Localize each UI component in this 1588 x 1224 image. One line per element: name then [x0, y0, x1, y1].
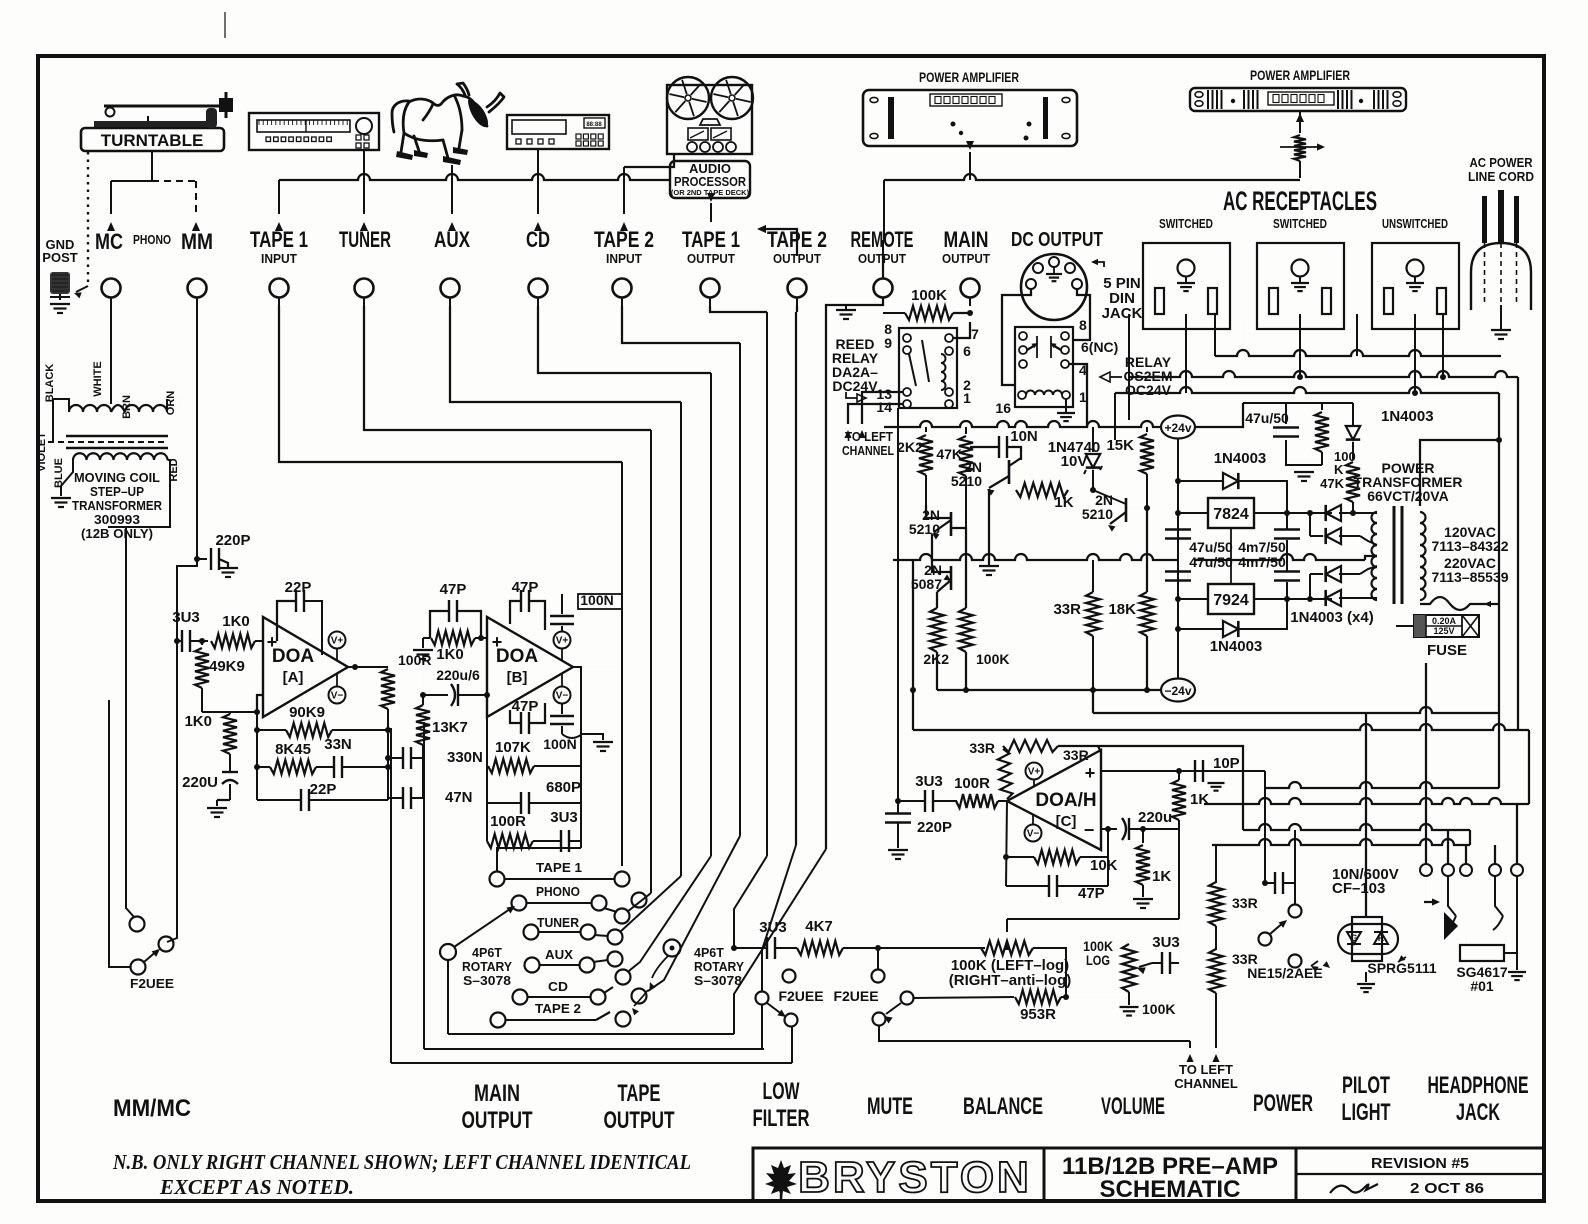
- audio processor box: [670, 161, 750, 198]
- registration tick top: [224, 12, 226, 38]
- main output wires: [387, 717, 389, 800]
- rail verticals: [1177, 438, 1179, 679]
- svg-text:V+: V+: [556, 636, 569, 647]
- svg-text:220P: 220P: [215, 532, 250, 549]
- wire mm to switch pole: [167, 559, 197, 942]
- svg-text:S–3078: S–3078: [694, 974, 742, 988]
- svg-text:SWITCHED: SWITCHED: [1159, 216, 1213, 231]
- svg-text:4m7/50: 4m7/50: [1238, 539, 1286, 555]
- svg-text:47K: 47K: [936, 446, 962, 462]
- doa/h input rail: [897, 408, 899, 801]
- svg-text:STEP–UP: STEP–UP: [90, 484, 144, 499]
- 5 pin din jack label: [1093, 262, 1104, 267]
- svg-text:(12B ONLY): (12B ONLY): [81, 526, 153, 541]
- bryston mini logo on amp 1: [930, 94, 1002, 106]
- svg-text:47P: 47P: [512, 698, 539, 715]
- wire doa b to tape1 sw: [497, 848, 581, 871]
- svg-text:V−: V−: [1027, 829, 1040, 840]
- switch row tuner: [524, 925, 539, 940]
- wire remote spare drop: [795, 312, 797, 845]
- right rail 1: [1498, 393, 1500, 788]
- wires to left channel: [862, 392, 903, 424]
- svg-text:TRANSFORMER: TRANSFORMER: [72, 498, 163, 513]
- wire tape2out drop: [796, 306, 798, 312]
- switch row tape1: [490, 872, 505, 887]
- pilot light opto: [1352, 917, 1382, 961]
- svg-text:220u: 220u: [1138, 809, 1172, 826]
- wire balance right: [1033, 948, 1066, 997]
- svg-text:1: 1: [963, 390, 971, 406]
- ac receptacle 3: [1372, 243, 1459, 329]
- transformer primary winding: [1420, 512, 1426, 523]
- turntable tonearm: [104, 105, 222, 108]
- audio processor to reel arrow: [710, 222, 712, 256]
- svg-text:LOG: LOG: [1086, 952, 1110, 968]
- switch row tape2: [491, 1013, 506, 1028]
- svg-text:1K0: 1K0: [184, 713, 212, 730]
- svg-text:1: 1: [1079, 389, 1087, 405]
- svg-text:47u/50: 47u/50: [1245, 410, 1289, 426]
- wire doa a out to 220u: [388, 667, 423, 695]
- receptacle neutral bus: [1115, 387, 1499, 393]
- svg-text:1K: 1K: [1190, 791, 1209, 808]
- svg-text:MM: MM: [181, 229, 213, 254]
- power switch: [1289, 905, 1302, 918]
- long verticals: [621, 462, 623, 866]
- phone plug symbol: [1444, 912, 1458, 940]
- svg-text:15K: 15K: [1106, 437, 1134, 454]
- svg-text:66VCT/20VA: 66VCT/20VA: [1367, 488, 1448, 504]
- svg-text:88:88: 88:88: [586, 122, 602, 128]
- wire tape1out drop: [710, 306, 767, 312]
- regulator 7824: [1208, 498, 1254, 528]
- svg-text:1N4003: 1N4003: [1210, 638, 1263, 655]
- svg-text:10N: 10N: [1010, 428, 1038, 445]
- wire low filter vertical: [761, 1005, 763, 1049]
- svg-text:TUNER: TUNER: [537, 916, 579, 930]
- svg-text:47N: 47N: [445, 789, 473, 806]
- svg-text:953R: 953R: [1020, 1006, 1056, 1023]
- svg-text:4P6T: 4P6T: [694, 946, 724, 960]
- cap 4m7 wires: [1286, 513, 1288, 529]
- cap 4m7 upper: [1274, 528, 1300, 530]
- svg-text:(RIGHT–anti–log): (RIGHT–anti–log): [949, 972, 1072, 989]
- svg-text:3U3: 3U3: [550, 809, 578, 826]
- svg-text:POST: POST: [42, 250, 77, 265]
- svg-text:[A]: [A]: [283, 669, 304, 686]
- svg-text:33R: 33R: [969, 740, 995, 756]
- svg-text:5210: 5210: [951, 473, 982, 489]
- ac receptacle 1: [1143, 243, 1230, 329]
- svg-text:G: G: [1350, 933, 1357, 943]
- mc transformer core: [66, 435, 168, 438]
- svg-text:BLACK: BLACK: [44, 364, 56, 403]
- transformer core: [1393, 506, 1396, 604]
- wire tuner drop: [363, 150, 365, 214]
- mc step-up transformer primary: [69, 405, 83, 412]
- +24v supply bus: [884, 421, 1162, 427]
- wire into low filter: [733, 941, 735, 948]
- reed relay coil: [941, 354, 946, 363]
- svg-text:−: −: [1084, 820, 1095, 840]
- svg-text:1N4003 (x4): 1N4003 (x4): [1290, 609, 1373, 626]
- reed relay contacts: [903, 334, 911, 342]
- svg-text:BALANCE: BALANCE: [963, 1093, 1043, 1120]
- svg-text:EXCEPT AS NOTED.: EXCEPT AS NOTED.: [159, 1175, 354, 1199]
- svg-text:FILTER: FILTER: [753, 1105, 810, 1132]
- reed relay DA2A box: [899, 328, 957, 408]
- neon NE15/2AEE: [1289, 955, 1302, 968]
- wire turntable to phono arrows: [151, 151, 153, 181]
- feedback network A: [256, 713, 258, 800]
- op-amp DOA B: [487, 617, 573, 717]
- svg-text:18K: 18K: [1108, 601, 1136, 618]
- svg-text:PHONO: PHONO: [536, 885, 580, 899]
- svg-text:6(NC): 6(NC): [1081, 339, 1118, 355]
- receptacle slot drops: [1128, 314, 1130, 377]
- wire tape1 drop: [279, 306, 622, 462]
- svg-text:4P6T: 4P6T: [472, 946, 502, 960]
- audio processor bus: [279, 174, 670, 180]
- svg-text:1N4003: 1N4003: [1381, 408, 1434, 425]
- svg-text:DC OUTPUT: DC OUTPUT: [1011, 229, 1103, 251]
- svg-text:OC24V: OC24V: [1125, 382, 1172, 398]
- svg-text:7: 7: [971, 326, 979, 342]
- svg-text:DOA: DOA: [496, 646, 539, 667]
- svg-text:V−: V−: [556, 691, 569, 702]
- reel-to-reel tape deck drawing: [667, 85, 752, 154]
- svg-text:47P: 47P: [440, 581, 467, 598]
- mute switch: [872, 970, 885, 983]
- svg-text:MUTE: MUTE: [867, 1093, 913, 1120]
- arrow into jack: [1424, 901, 1436, 903]
- svg-text:FUSE: FUSE: [1427, 642, 1467, 659]
- svg-text:INPUT: INPUT: [606, 251, 642, 266]
- svg-text:1K0: 1K0: [436, 646, 464, 663]
- svg-text:1K0: 1K0: [222, 613, 250, 630]
- svg-text:680P: 680P: [546, 779, 581, 796]
- svg-text:1K: 1K: [1152, 868, 1171, 885]
- svg-text:330N: 330N: [447, 749, 483, 766]
- wire mm drop: [196, 306, 198, 559]
- svg-text:47P: 47P: [512, 579, 539, 596]
- ac receptacle 2: [1257, 243, 1344, 329]
- svg-text:33N: 33N: [324, 736, 352, 753]
- svg-text:MM/MC: MM/MC: [113, 1095, 191, 1122]
- svg-text:2 OCT 86: 2 OCT 86: [1410, 1180, 1484, 1197]
- svg-text:DOA: DOA: [272, 646, 315, 667]
- v-minus bus: [1092, 690, 1094, 713]
- svg-text:7924: 7924: [1213, 592, 1249, 609]
- wire main output arrow to amp 1: [969, 152, 971, 180]
- switch row phono: [512, 896, 527, 911]
- svg-text:OUTPUT: OUTPUT: [687, 251, 735, 266]
- svg-text:JACK: JACK: [1102, 305, 1143, 322]
- svg-text:8: 8: [1079, 317, 1087, 333]
- reed relay ground: [846, 297, 883, 305]
- doa a inverting input wire: [257, 695, 263, 713]
- red lead to switch: [126, 527, 134, 917]
- svg-text:V+: V+: [331, 636, 344, 647]
- svg-text:9: 9: [884, 335, 892, 351]
- svg-text:VOLUME: VOLUME: [1101, 1093, 1165, 1120]
- svg-text:CF–103: CF–103: [1332, 880, 1385, 897]
- 0v mid bus: [893, 554, 1178, 560]
- bridge diodes 1N4003 x4: [1326, 505, 1341, 521]
- wire tuner drop 2: [364, 306, 651, 430]
- svg-text:AUX: AUX: [545, 948, 574, 962]
- svg-text:TAPE 1: TAPE 1: [536, 861, 582, 875]
- svg-text:TO LEFT: TO LEFT: [845, 429, 893, 444]
- svg-text:F2UEE: F2UEE: [778, 988, 823, 1004]
- bull drawing: [392, 83, 504, 158]
- orn lead: [167, 399, 181, 412]
- capacitor 47u/50 lower: [1165, 570, 1191, 572]
- svg-text:BRYSTON: BRYSTON: [798, 1153, 1032, 1202]
- svg-text:3U3: 3U3: [1152, 934, 1180, 951]
- doa b output: [573, 666, 622, 668]
- svg-text:OUTPUT: OUTPUT: [942, 251, 990, 266]
- doa/h minus output: [1101, 828, 1117, 830]
- wire cd drop 2: [538, 306, 711, 373]
- switch row aux: [525, 958, 540, 973]
- 0v to -24 link: [912, 560, 914, 690]
- regulator 7924: [1208, 584, 1254, 614]
- mm/mc pole wire: [109, 700, 131, 967]
- dc output din jack: [1021, 254, 1087, 320]
- fuse: [1414, 615, 1479, 637]
- din wiring: [1002, 289, 1031, 385]
- relay OS2EM ground: [1065, 399, 1067, 413]
- svg-text:33R: 33R: [1063, 747, 1089, 763]
- svg-text:47K: 47K: [1320, 476, 1344, 491]
- svg-text:3U3: 3U3: [915, 773, 943, 790]
- svg-text:CHANNEL: CHANNEL: [842, 443, 894, 458]
- svg-text:7113–84322: 7113–84322: [1431, 538, 1508, 554]
- doa/h plus output: [1101, 770, 1265, 772]
- svg-text:8K45: 8K45: [275, 741, 311, 758]
- svg-text:47P: 47P: [1078, 885, 1105, 902]
- ground mid reg: [988, 560, 990, 566]
- ac plug drawing: [1471, 243, 1531, 310]
- svg-text:CD: CD: [548, 980, 568, 994]
- svg-text:10K: 10K: [1090, 857, 1118, 874]
- +24v bubble: [1161, 416, 1195, 439]
- svg-text:100R: 100R: [954, 775, 990, 792]
- cd player drawing: [507, 115, 609, 149]
- relay pin4 wire: [1069, 364, 1087, 427]
- amp feed bus: [884, 174, 1300, 180]
- low filter switch: [783, 970, 796, 983]
- receptacle hot bus: [1129, 371, 1518, 377]
- svg-text:PILOT: PILOT: [1342, 1072, 1390, 1099]
- svg-text:10V: 10V: [1061, 453, 1088, 470]
- svg-text:4K7: 4K7: [805, 918, 833, 935]
- wire bull drop: [451, 165, 453, 214]
- svg-text:F2UEE: F2UEE: [130, 976, 174, 991]
- svg-text:ROTARY: ROTARY: [694, 960, 745, 974]
- svg-text:AC RECEPTACLES: AC RECEPTACLES: [1223, 186, 1377, 216]
- svg-text:SPRG5111: SPRG5111: [1367, 960, 1436, 976]
- maple leaf logo: [765, 1160, 797, 1199]
- gnd post symbol: [50, 272, 70, 294]
- svg-text:16: 16: [995, 400, 1011, 416]
- svg-text:INPUT: INPUT: [261, 251, 297, 266]
- wire reel-to-reel to tape2 input: [624, 154, 674, 167]
- svg-text:F2UEE: F2UEE: [833, 988, 878, 1004]
- svg-text:LOW: LOW: [763, 1078, 800, 1105]
- left ac drops: [1128, 377, 1130, 420]
- wire arrow into amp 2: [1299, 112, 1301, 133]
- relay OS2EM box: [1015, 327, 1073, 407]
- title block: [753, 1148, 1544, 1201]
- svg-text:V−: V−: [331, 691, 344, 702]
- svg-text:PROCESSOR: PROCESSOR: [674, 174, 747, 189]
- svg-text:10P: 10P: [1213, 755, 1240, 772]
- svg-text:MAIN: MAIN: [944, 227, 989, 252]
- svg-text:49K9: 49K9: [209, 658, 245, 675]
- svg-text:NE15/2AEE: NE15/2AEE: [1247, 965, 1322, 981]
- headphone jack contacts: [1420, 864, 1432, 876]
- svg-text:DOA/H: DOA/H: [1035, 790, 1096, 811]
- svg-text:HEADPHONE: HEADPHONE: [1428, 1072, 1529, 1099]
- tuner drawing: [249, 113, 379, 150]
- wire tape2 output up to reel: [760, 229, 797, 256]
- svg-text:14: 14: [876, 399, 892, 415]
- right rail 2: [1517, 377, 1519, 730]
- svg-text:107K: 107K: [495, 739, 531, 756]
- svg-text:AC POWER: AC POWER: [1470, 155, 1534, 170]
- svg-text:TAPE: TAPE: [618, 1080, 661, 1107]
- red lead label box: [108, 460, 170, 527]
- primary top wire: [1420, 440, 1499, 506]
- svg-text:5210: 5210: [1082, 506, 1113, 522]
- transformer secondary winding: [1372, 512, 1378, 523]
- phono jacks row: [102, 279, 121, 298]
- primary bottom wire: [1420, 597, 1481, 610]
- wire tape2in drop: [622, 306, 740, 343]
- svg-text:MC: MC: [95, 229, 123, 254]
- op-amp DOA A: [263, 617, 348, 717]
- svg-text:LIGHT: LIGHT: [1342, 1099, 1391, 1126]
- top node wire: [1243, 402, 1353, 404]
- svg-text:PHONO: PHONO: [133, 232, 171, 247]
- wire cd drop: [537, 149, 539, 214]
- svg-text:220U: 220U: [182, 774, 218, 791]
- diagonal wires to switches: [627, 893, 651, 912]
- svg-text:100K: 100K: [911, 287, 947, 304]
- svg-text:100R: 100R: [490, 813, 526, 830]
- svg-text:POWER: POWER: [1253, 1090, 1313, 1117]
- svg-text:100K: 100K: [1142, 1001, 1175, 1017]
- svg-text:47u/50: 47u/50: [1189, 539, 1233, 555]
- svg-text:1N4003: 1N4003: [1214, 450, 1267, 467]
- mm/mc switch: [130, 917, 145, 932]
- svg-text:OUTPUT: OUTPUT: [462, 1107, 533, 1134]
- svg-text:−24v: −24v: [1164, 684, 1191, 698]
- dotted ground wire from turntable: [87, 152, 89, 286]
- svg-text:22P: 22P: [285, 579, 312, 596]
- svg-text:LINE CORD: LINE CORD: [1468, 169, 1534, 184]
- wire remote output up: [882, 256, 884, 278]
- svg-text:7824: 7824: [1213, 506, 1249, 523]
- svg-text:4m7/50: 4m7/50: [1238, 554, 1286, 570]
- ground 1K0 b: [422, 638, 424, 648]
- wire tape1 output to audio processor: [710, 204, 712, 222]
- svg-text:7113–85539: 7113–85539: [1431, 569, 1508, 585]
- relay OS2EM contacts: [1019, 332, 1027, 340]
- switch row cd: [513, 990, 528, 1005]
- mid horizontal to doa/h: [913, 567, 1530, 730]
- svg-text:WHITE: WHITE: [92, 361, 104, 396]
- svg-text:VIOLET: VIOLET: [36, 432, 48, 472]
- svg-text:300993: 300993: [94, 512, 140, 527]
- bus to doa/h area: [913, 724, 1529, 730]
- svg-text:TAPE 2: TAPE 2: [535, 1002, 581, 1016]
- svg-text:+24v: +24v: [1164, 421, 1191, 435]
- svg-text:47u/50: 47u/50: [1189, 554, 1233, 570]
- svg-text:JACK: JACK: [1456, 1099, 1500, 1126]
- bottom right buses: [1265, 782, 1499, 788]
- level pot to amp 2: [1294, 135, 1306, 161]
- svg-text:TO LEFT: TO LEFT: [1179, 1062, 1233, 1077]
- svg-text:5087: 5087: [911, 576, 942, 592]
- cap 4m7 lower: [1274, 570, 1300, 572]
- svg-text:220u/6: 220u/6: [436, 667, 480, 683]
- wire mute down: [879, 1026, 1190, 1041]
- svg-text:POWER AMPLIFIER: POWER AMPLIFIER: [919, 69, 1019, 85]
- svg-text:N.B. ONLY RIGHT CHANNEL SH: N.B. ONLY RIGHT CHANNEL SHOWN; LEFT CHAN…: [112, 1150, 691, 1174]
- -24v bubble: [1161, 679, 1195, 702]
- svg-text:S–3078: S–3078: [463, 974, 511, 988]
- wire aux drop: [450, 306, 681, 402]
- svg-text:33R: 33R: [1232, 895, 1258, 911]
- rotary 1 pole: [440, 944, 456, 960]
- reed relay pin7 wire: [953, 322, 970, 338]
- svg-text:100K: 100K: [976, 651, 1009, 667]
- svg-text:+: +: [1085, 763, 1096, 783]
- svg-text:3U3: 3U3: [759, 919, 787, 936]
- svg-text:125V: 125V: [1433, 626, 1454, 636]
- bottom rail to -24v: [937, 689, 1162, 691]
- bridge wiring: [1325, 512, 1341, 514]
- pilot ground: [1365, 972, 1367, 982]
- svg-text:REVISION #5: REVISION #5: [1371, 1155, 1469, 1172]
- blue lead + ground: [61, 460, 73, 496]
- transformer center tap: [1365, 556, 1377, 560]
- svg-text:90K9: 90K9: [289, 704, 325, 721]
- capacitor 47u/50 upper: [1165, 528, 1191, 530]
- svg-text:0.20A: 0.20A: [1432, 616, 1457, 626]
- svg-text:POWER AMPLIFIER: POWER AMPLIFIER: [1250, 67, 1350, 83]
- svg-text:#01: #01: [1470, 978, 1494, 994]
- svg-text:3U3: 3U3: [172, 609, 200, 626]
- svg-text:[B]: [B]: [507, 669, 528, 686]
- op-amp DOA/H C: [1007, 750, 1101, 850]
- receptacle ground bus: [1215, 350, 1501, 356]
- svg-text:V+: V+: [1028, 767, 1041, 778]
- rotary 2 pole: [664, 940, 681, 957]
- svg-text:SCHEMATIC: SCHEMATIC: [1100, 1176, 1241, 1203]
- svg-text:22P: 22P: [310, 781, 337, 798]
- svg-text:MAIN: MAIN: [474, 1080, 520, 1107]
- doa a output: [348, 666, 388, 668]
- svg-text:CHANNEL: CHANNEL: [1174, 1076, 1238, 1091]
- svg-text:TURNTABLE: TURNTABLE: [101, 131, 204, 150]
- svg-text:R: R: [1378, 933, 1385, 943]
- svg-text:SWITCHED: SWITCHED: [1273, 216, 1327, 231]
- svg-text:UNSWITCHED: UNSWITCHED: [1382, 216, 1448, 231]
